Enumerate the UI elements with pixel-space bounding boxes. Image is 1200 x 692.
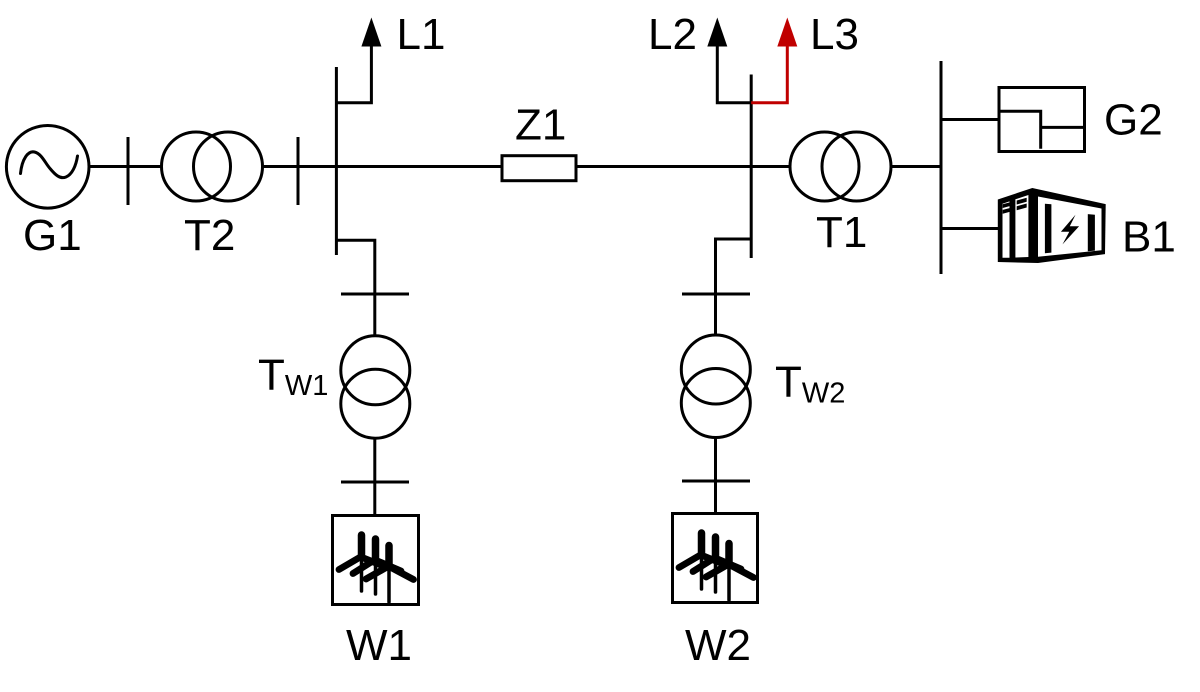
wind farm W1 [333,516,419,605]
transformer TW1 [341,336,410,438]
bus C (far right busbar) [940,61,943,274]
wire bus C to B1 [941,227,999,230]
svg-text:W2: W2 [685,621,751,670]
wire T1 to bus C [891,165,941,168]
bus A (left busbar) [335,67,338,255]
load L3 branch wire (red) [751,45,787,103]
svg-text:Z1: Z1 [515,101,566,150]
wire TW1 to W1 [373,438,376,514]
disconnect tick above TW2 [682,293,750,296]
disconnect tick below TW1 [341,481,409,484]
load L3 arrow (red) [777,18,797,47]
generator G1 [6,126,89,209]
wind farm W2 [673,514,758,603]
transformer TW2 [681,335,750,438]
wire bus B down to TW2 [716,239,752,335]
transformer T1 [790,132,891,201]
svg-text:G2: G2 [1104,96,1163,145]
impedance Z1 [502,156,576,181]
wire bus A down to TW1 [336,240,374,336]
svg-text:W1: W1 [346,621,412,670]
svg-text:T2: T2 [184,211,235,260]
svg-text:L1: L1 [397,10,446,59]
svg-text:TW1: TW1 [258,351,328,403]
terminal tick right of T2 [297,137,300,205]
load L1 arrow [361,18,381,47]
converter G2 [999,88,1085,152]
wire TW2 to W2 [714,438,717,513]
disconnect tick above TW1 [341,293,409,296]
svg-text:T1: T1 [816,208,867,257]
wire Z1 to bus B [577,165,751,168]
wire bus A to Z1 [336,165,501,168]
svg-text:B1: B1 [1122,213,1176,262]
load L2 arrow [707,18,727,47]
svg-text:TW2: TW2 [775,358,845,410]
load L2 branch wire [717,45,751,103]
svg-text:G1: G1 [23,211,82,260]
wire G1 to T2 [89,165,162,168]
terminal tick left of T2 [127,137,130,205]
bus B (right busbar) [750,75,753,259]
load L1 branch wire [336,45,371,103]
transformer T2 [162,132,263,201]
wire T2 to bus A [263,165,337,168]
wire bus C to G2 [941,118,999,121]
svg-text:L2: L2 [648,10,697,59]
disconnect tick below TW2 [682,480,750,483]
battery container B1 [998,188,1106,263]
wire bus B to T1 [751,165,790,168]
svg-text:L3: L3 [810,10,859,59]
